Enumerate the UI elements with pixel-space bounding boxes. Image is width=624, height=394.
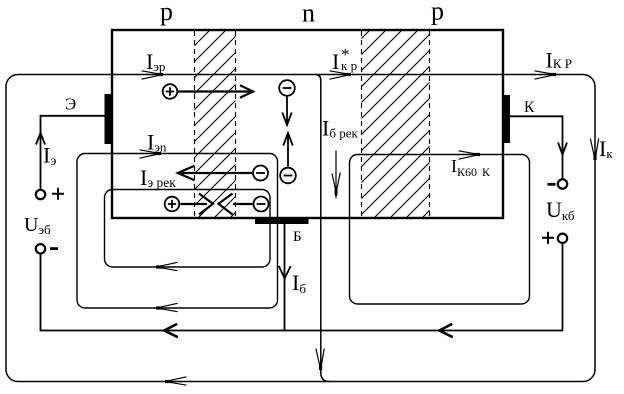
collector contact bar: [504, 95, 511, 143]
base contact bar: [255, 219, 309, 225]
electron carrier circle - (mid right): [280, 168, 296, 184]
slash arrow on loop B bottom (left): [156, 262, 178, 270]
arrow Iэ (up): [36, 133, 45, 145]
arrow up to - carrier: [283, 133, 292, 167]
svg-text:Э: Э: [65, 95, 76, 114]
slash arrow down on x=320 branch: [316, 349, 324, 371]
minus sign: [548, 183, 556, 186]
solid arrowhead left (right section): [439, 324, 453, 337]
wire from + terminal down: [562, 243, 564, 331]
collector wire to - terminal: [510, 116, 563, 179]
slash arrow Iк down on right edge: [590, 139, 598, 161]
depletion region 2 (hatched): [362, 31, 430, 217]
emitter contact bar: [105, 94, 112, 144]
hole carrier circle + (top): [163, 84, 178, 99]
slash arrow Iэр on top wire: [142, 71, 164, 79]
plus sign: [542, 232, 554, 244]
arrow down from - carrier: [282, 97, 291, 126]
bold arrow left (recombining electron): [219, 194, 253, 215]
base wire Iб: [284, 224, 286, 331]
loop A (emitter recombination loop, outer-left): [77, 154, 278, 309]
terminal circle + (emitter battery): [36, 190, 45, 199]
slash arrow on outer loop bottom (left): [165, 377, 187, 385]
arrowhead down to - terminal: [558, 143, 567, 155]
plus sign: [52, 188, 64, 200]
svg-text:n: n: [302, 0, 315, 28]
terminal circle - (collector battery): [558, 179, 567, 188]
svg-text:к р: к р: [341, 58, 357, 73]
emitter wire to + terminal: [41, 116, 105, 190]
wire: branch vertical at x=320 from top loop to bottom loop: [316, 75, 330, 382]
slash arrow Iэп on loop A top: [140, 150, 162, 158]
electron carrier circle - (bottom recombination): [254, 197, 269, 212]
loop C (collector loop): [350, 155, 530, 305]
slash arrow on loop A bottom (left): [156, 303, 178, 311]
bold arrow right from + carrier: [178, 85, 253, 98]
arrow Iб рек (standalone, down): [332, 151, 340, 199]
svg-text:p: p: [431, 0, 444, 26]
terminal circle - (emitter battery): [36, 244, 45, 253]
slash arrow IК60К on loop C top: [459, 151, 481, 159]
minus sign: [50, 247, 58, 250]
terminal circle + (collector battery): [558, 234, 567, 243]
svg-text:К: К: [524, 99, 535, 116]
svg-text:Б: Б: [293, 229, 302, 245]
bold arrow left Iэ рек: [178, 166, 252, 180]
slash arrow I*кр on top wire: [330, 71, 352, 79]
wire: from - terminal down and right to + of Uкб: [41, 254, 564, 331]
depletion region 1 (hatched): [195, 31, 236, 217]
outer circuit loop wire: [6, 75, 595, 382]
electron carrier circle - (recombination row 1): [253, 166, 268, 181]
electron carrier circle - (upper): [279, 80, 295, 96]
arrowhead Iб down: [279, 266, 291, 278]
slash arrow IКР on top wire: [535, 71, 557, 79]
solid arrowhead left on base return wire: [164, 324, 178, 337]
transistor body box: [112, 30, 503, 218]
hole carrier circle + (bottom recombination): [165, 197, 180, 212]
svg-text:I: I: [332, 49, 339, 74]
loop B (inner-left loop): [105, 190, 271, 268]
svg-text:p: p: [160, 0, 173, 26]
bold arrow right (recombining hole): [181, 194, 214, 215]
